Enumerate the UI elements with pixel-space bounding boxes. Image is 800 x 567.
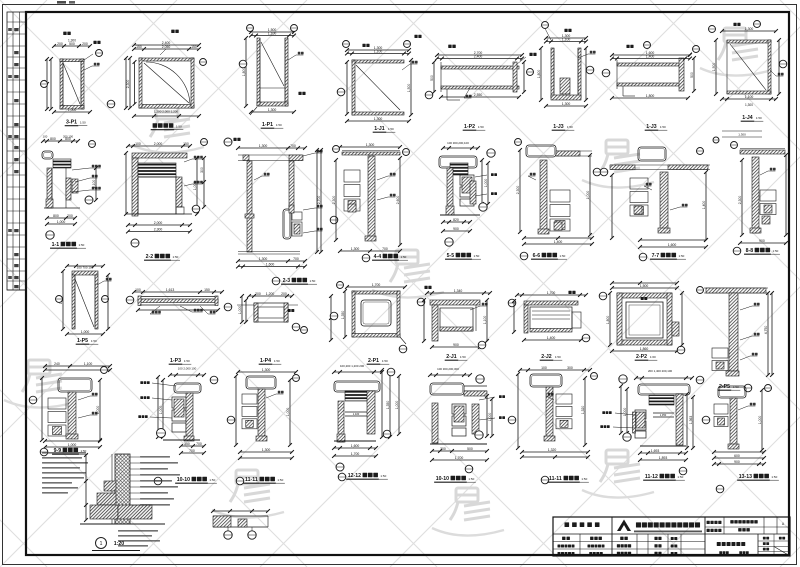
svg-text:1:50: 1:50 bbox=[276, 123, 282, 127]
detail section 4-4 bbox=[330, 143, 409, 262]
detail section 5-5 bbox=[439, 141, 497, 259]
svg-text:2-2: 2-2 bbox=[146, 254, 154, 260]
svg-text:1,320: 1,320 bbox=[353, 412, 360, 416]
svg-text:2,550: 2,550 bbox=[474, 93, 483, 97]
detail section 11-11 right bbox=[508, 366, 597, 484]
svg-text:1,350: 1,350 bbox=[386, 401, 390, 410]
svg-text:700: 700 bbox=[189, 449, 195, 453]
svg-text:1,000: 1,000 bbox=[68, 108, 77, 112]
svg-text:1,600: 1,600 bbox=[351, 444, 360, 448]
svg-text:1:20: 1:20 bbox=[114, 541, 124, 547]
svg-text:2-P2: 2-P2 bbox=[636, 354, 647, 360]
svg-text:100,200 1,200 200: 100,200 1,200 200 bbox=[340, 364, 365, 368]
top edge residue marks bbox=[57, 1, 75, 4]
svg-text:10-10: 10-10 bbox=[436, 476, 449, 482]
left binding strip revision table bbox=[7, 12, 26, 290]
svg-text:1:50: 1:50 bbox=[91, 339, 97, 343]
svg-text:1,350: 1,350 bbox=[660, 413, 667, 417]
svg-text:1,700: 1,700 bbox=[455, 456, 464, 460]
svg-text:1,800: 1,800 bbox=[646, 94, 655, 98]
svg-text:1,693: 1,693 bbox=[651, 449, 660, 453]
svg-text:1,100: 1,100 bbox=[562, 37, 571, 41]
detail section 8-8 bbox=[731, 142, 788, 255]
svg-text:1:50: 1:50 bbox=[468, 477, 474, 481]
svg-text:1,800: 1,800 bbox=[242, 68, 246, 77]
svg-text:1:50: 1:50 bbox=[460, 355, 466, 359]
svg-text:2-P1: 2-P1 bbox=[368, 358, 379, 364]
svg-text:1,700: 1,700 bbox=[547, 291, 556, 295]
svg-text:150: 150 bbox=[204, 288, 210, 292]
svg-text:1-J1: 1-J1 bbox=[374, 126, 384, 132]
svg-text:1-P3: 1-P3 bbox=[170, 358, 181, 364]
detail 2-J1 section bbox=[417, 286, 492, 360]
svg-text:500: 500 bbox=[467, 447, 473, 451]
svg-text:1,000: 1,000 bbox=[395, 401, 399, 410]
svg-text:800: 800 bbox=[65, 137, 71, 141]
svg-text:1,000: 1,000 bbox=[586, 191, 590, 200]
svg-text:1,300: 1,300 bbox=[738, 133, 746, 137]
svg-text:11-11: 11-11 bbox=[245, 477, 258, 483]
detail 2-P2 window plan bbox=[599, 281, 685, 360]
detail 2-P5 wall section bbox=[696, 287, 774, 392]
svg-text:900: 900 bbox=[734, 460, 740, 464]
svg-text:1:50: 1:50 bbox=[756, 116, 762, 120]
svg-text:1:50: 1:50 bbox=[771, 475, 777, 479]
svg-text:1:50: 1:50 bbox=[380, 474, 386, 478]
svg-text:1,000: 1,000 bbox=[488, 413, 492, 422]
svg-text:1-P2: 1-P2 bbox=[464, 124, 475, 130]
svg-text:1,300: 1,300 bbox=[366, 143, 375, 147]
svg-text:200: 200 bbox=[57, 42, 63, 46]
svg-text:1:50: 1:50 bbox=[176, 124, 182, 128]
detail section 6-6 bbox=[515, 139, 601, 260]
svg-text:1,400: 1,400 bbox=[646, 54, 655, 58]
svg-text:1:50: 1:50 bbox=[474, 254, 480, 258]
svg-text:1,000: 1,000 bbox=[623, 408, 627, 417]
svg-text:2,000: 2,000 bbox=[154, 142, 163, 146]
svg-text:1,000: 1,000 bbox=[68, 443, 77, 447]
svg-text:1,100: 1,100 bbox=[745, 95, 754, 99]
svg-text:3-P1: 3-P1 bbox=[66, 120, 77, 126]
detail 1-J3a duct plan bbox=[602, 42, 699, 131]
svg-text:1,300: 1,300 bbox=[68, 39, 76, 43]
svg-text:900: 900 bbox=[759, 239, 765, 243]
title block bbox=[553, 517, 790, 556]
detail section 11-11 bbox=[227, 368, 299, 485]
svg-text:100 300,200,100: 100 300,200,100 bbox=[447, 141, 469, 145]
svg-text:1,200 2,000 1,200: 1,200 2,000 1,200 bbox=[154, 110, 179, 114]
svg-text:1,000: 1,000 bbox=[758, 416, 762, 425]
detail 1-P3 coping section bbox=[126, 288, 224, 364]
svg-text:1,000: 1,000 bbox=[484, 179, 488, 188]
svg-text:100: 100 bbox=[43, 135, 48, 139]
detail section 12-12 bbox=[332, 364, 401, 481]
svg-text:1,800: 1,800 bbox=[606, 316, 610, 325]
detail section 1-1 bbox=[41, 135, 101, 249]
svg-text:1,400: 1,400 bbox=[554, 240, 563, 244]
svg-text:2-3: 2-3 bbox=[283, 278, 291, 284]
svg-text:1-1: 1-1 bbox=[52, 242, 60, 248]
svg-text:2,300: 2,300 bbox=[738, 196, 742, 205]
svg-text:1,100: 1,100 bbox=[84, 362, 93, 366]
svg-text:1:50: 1:50 bbox=[277, 478, 283, 482]
svg-text:2-P5: 2-P5 bbox=[719, 384, 730, 390]
svg-text:11-11: 11-11 bbox=[549, 476, 562, 482]
detail 1 wall section 1:20 with notes bbox=[42, 452, 180, 551]
svg-text:1-J3: 1-J3 bbox=[553, 124, 563, 130]
svg-text:13-13: 13-13 bbox=[739, 474, 752, 480]
svg-text:300: 300 bbox=[567, 366, 573, 370]
detail section 7-7 bbox=[600, 147, 710, 261]
svg-text:1,400: 1,400 bbox=[547, 336, 556, 340]
detail 2-P1 sill plan bbox=[329, 282, 407, 365]
svg-text:1,320: 1,320 bbox=[548, 448, 557, 452]
detail 1-P2 duct plan bbox=[425, 45, 536, 131]
svg-text:1:50: 1:50 bbox=[173, 255, 179, 259]
detail 1-P5 shaft plan bbox=[56, 264, 112, 344]
svg-text:2,600: 2,600 bbox=[396, 196, 400, 205]
svg-text:1,100: 1,100 bbox=[483, 316, 487, 325]
svg-text:1:60: 1:60 bbox=[650, 355, 656, 359]
svg-text:800: 800 bbox=[53, 214, 59, 218]
svg-text:150: 150 bbox=[183, 142, 189, 146]
svg-text:1,500: 1,500 bbox=[712, 63, 716, 72]
svg-text:100: 100 bbox=[541, 366, 547, 370]
svg-text:1,340: 1,340 bbox=[454, 289, 463, 293]
svg-text:100: 100 bbox=[135, 142, 141, 146]
svg-text:1:50: 1:50 bbox=[388, 127, 394, 131]
detail section 10-10 bbox=[138, 367, 217, 485]
detail 2-J2 section bbox=[508, 291, 590, 360]
svg-text:1,000: 1,000 bbox=[238, 306, 242, 315]
svg-text:1,300: 1,300 bbox=[262, 448, 271, 452]
svg-text:1,893: 1,893 bbox=[659, 456, 668, 460]
svg-text:6-6: 6-6 bbox=[533, 253, 541, 259]
svg-text:100 300,200,300: 100 300,200,300 bbox=[437, 367, 459, 371]
svg-text:11-12: 11-12 bbox=[645, 474, 658, 480]
svg-text:300: 300 bbox=[440, 447, 446, 451]
svg-text:200: 200 bbox=[67, 214, 73, 218]
svg-text:4,750: 4,750 bbox=[764, 326, 768, 335]
svg-text:1:50: 1:50 bbox=[478, 125, 484, 129]
svg-text:1:50: 1:50 bbox=[581, 477, 587, 481]
svg-text:1,600: 1,600 bbox=[266, 262, 275, 266]
svg-text:1,300: 1,300 bbox=[745, 103, 753, 107]
svg-text:2,300: 2,300 bbox=[332, 196, 336, 205]
svg-text:1-P4: 1-P4 bbox=[260, 358, 271, 364]
svg-text:1,613: 1,613 bbox=[166, 288, 175, 292]
svg-text:1,320: 1,320 bbox=[581, 406, 585, 415]
svg-text:1,300: 1,300 bbox=[262, 368, 271, 372]
detail 1-J3 shaft plan bbox=[537, 22, 596, 131]
detail section 10-10 right bbox=[428, 367, 505, 482]
svg-text:5-5: 5-5 bbox=[447, 253, 455, 259]
svg-text:1,300: 1,300 bbox=[351, 247, 360, 251]
svg-text:1,363: 1,363 bbox=[689, 416, 693, 425]
detail section 2-2 bbox=[124, 139, 207, 261]
svg-text:1:50: 1:50 bbox=[660, 125, 666, 129]
detail section 13-13 bbox=[702, 385, 779, 493]
svg-text:700: 700 bbox=[293, 257, 299, 261]
svg-text:800: 800 bbox=[50, 137, 56, 141]
svg-text:1:50: 1:50 bbox=[80, 120, 86, 124]
svg-text:200: 200 bbox=[255, 292, 261, 296]
svg-text:8-8: 8-8 bbox=[746, 248, 754, 254]
svg-text:1:50: 1:50 bbox=[274, 359, 280, 363]
svg-text:1,000: 1,000 bbox=[81, 330, 90, 334]
detail 1-J4 shaft plan bbox=[709, 21, 787, 144]
svg-text:1:50: 1:50 bbox=[401, 255, 407, 259]
svg-text:100: 100 bbox=[135, 288, 141, 292]
svg-text:1,300: 1,300 bbox=[745, 27, 754, 31]
svg-text:1,300: 1,300 bbox=[259, 144, 268, 148]
svg-text:1:50: 1:50 bbox=[79, 243, 85, 247]
svg-text:1,000: 1,000 bbox=[57, 220, 66, 224]
svg-text:1:50: 1:50 bbox=[677, 475, 683, 479]
svg-text:1,500: 1,500 bbox=[407, 84, 411, 93]
svg-text:1,100: 1,100 bbox=[268, 31, 277, 35]
detail section 11-12 bbox=[600, 369, 695, 480]
svg-text:1,700: 1,700 bbox=[351, 452, 360, 456]
svg-text:1-J4: 1-J4 bbox=[742, 115, 752, 121]
svg-text:300: 300 bbox=[200, 167, 204, 173]
svg-text:1,350: 1,350 bbox=[341, 311, 345, 320]
detail 1-P4 sill plan bbox=[224, 292, 307, 364]
svg-text:700: 700 bbox=[196, 442, 202, 446]
svg-text:900: 900 bbox=[453, 227, 459, 231]
svg-text:1,000: 1,000 bbox=[286, 408, 290, 417]
svg-text:1:50: 1:50 bbox=[555, 355, 561, 359]
detail natural vent shaft plan bbox=[107, 30, 206, 130]
svg-text:900: 900 bbox=[453, 343, 459, 347]
svg-text:1,860: 1,860 bbox=[640, 347, 649, 351]
svg-text:12-12: 12-12 bbox=[348, 473, 361, 479]
svg-text:350: 350 bbox=[184, 442, 190, 446]
svg-text:4-4: 4-4 bbox=[374, 254, 382, 260]
svg-text:700: 700 bbox=[382, 247, 388, 251]
svg-text:500: 500 bbox=[430, 75, 434, 81]
svg-text:1,300: 1,300 bbox=[374, 117, 383, 121]
svg-text:200: 200 bbox=[281, 292, 287, 296]
svg-text:150: 150 bbox=[136, 45, 142, 49]
svg-text:1,300: 1,300 bbox=[259, 257, 268, 261]
svg-text:1,300: 1,300 bbox=[268, 108, 277, 112]
detail 1-J1 duct plan bbox=[337, 35, 421, 132]
detail section 2-3 bbox=[224, 138, 323, 285]
detail section 9-9 bbox=[29, 362, 112, 456]
svg-text:1:50: 1:50 bbox=[184, 359, 190, 363]
svg-text:1:50: 1:50 bbox=[679, 254, 685, 258]
svg-text:1,700: 1,700 bbox=[372, 283, 381, 287]
svg-text:1:50: 1:50 bbox=[567, 125, 573, 129]
svg-text:1:50: 1:50 bbox=[310, 279, 316, 283]
svg-text:200 1,400 200,100: 200 1,400 200,100 bbox=[648, 369, 673, 373]
svg-text:700: 700 bbox=[290, 144, 296, 148]
svg-text:500: 500 bbox=[690, 72, 694, 78]
svg-text:1,500: 1,500 bbox=[640, 284, 649, 288]
svg-text:2,000: 2,000 bbox=[154, 221, 163, 225]
svg-text:1,200: 1,200 bbox=[266, 292, 275, 296]
svg-text:2-J2: 2-J2 bbox=[541, 354, 551, 360]
svg-text:1:50: 1:50 bbox=[773, 249, 779, 253]
svg-text:7-7: 7-7 bbox=[652, 253, 660, 259]
svg-text:1,800: 1,800 bbox=[537, 70, 541, 79]
svg-text:2,300: 2,300 bbox=[516, 186, 520, 195]
svg-text:600: 600 bbox=[734, 454, 740, 458]
svg-text:240: 240 bbox=[54, 362, 60, 366]
svg-text:2,400: 2,400 bbox=[474, 54, 483, 58]
svg-text:1: 1 bbox=[100, 541, 103, 547]
svg-text:1,300: 1,300 bbox=[562, 102, 571, 106]
svg-text:1:50: 1:50 bbox=[209, 478, 215, 482]
svg-text:820: 820 bbox=[453, 218, 459, 222]
svg-text:200: 200 bbox=[82, 42, 88, 46]
svg-text:100 2,000 100: 100 2,000 100 bbox=[178, 367, 197, 371]
svg-text:1,600: 1,600 bbox=[668, 243, 677, 247]
svg-text:150: 150 bbox=[191, 45, 197, 49]
svg-text:2-J1: 2-J1 bbox=[446, 354, 456, 360]
svg-text:2,050: 2,050 bbox=[162, 45, 171, 49]
svg-text:2,300: 2,300 bbox=[154, 227, 163, 231]
svg-text:1,100: 1,100 bbox=[374, 49, 383, 53]
svg-text:1-P5: 1-P5 bbox=[77, 338, 88, 344]
svg-text:2,100: 2,100 bbox=[92, 180, 96, 189]
svg-text:1-P1: 1-P1 bbox=[262, 122, 273, 128]
svg-text:1:50: 1:50 bbox=[560, 254, 566, 258]
svg-text:1:50: 1:50 bbox=[382, 359, 388, 363]
svg-text:1:50: 1:50 bbox=[733, 385, 739, 389]
svg-text:10-10: 10-10 bbox=[177, 477, 190, 483]
svg-text:1,400: 1,400 bbox=[702, 201, 706, 210]
detail small parapet plan bbox=[211, 509, 270, 539]
detail 3-P1 shaft plan bbox=[41, 32, 103, 126]
detail 1-P1 shaft plan bbox=[239, 25, 305, 129]
svg-text:1-J3: 1-J3 bbox=[646, 124, 656, 130]
svg-text:1,000: 1,000 bbox=[159, 406, 163, 415]
